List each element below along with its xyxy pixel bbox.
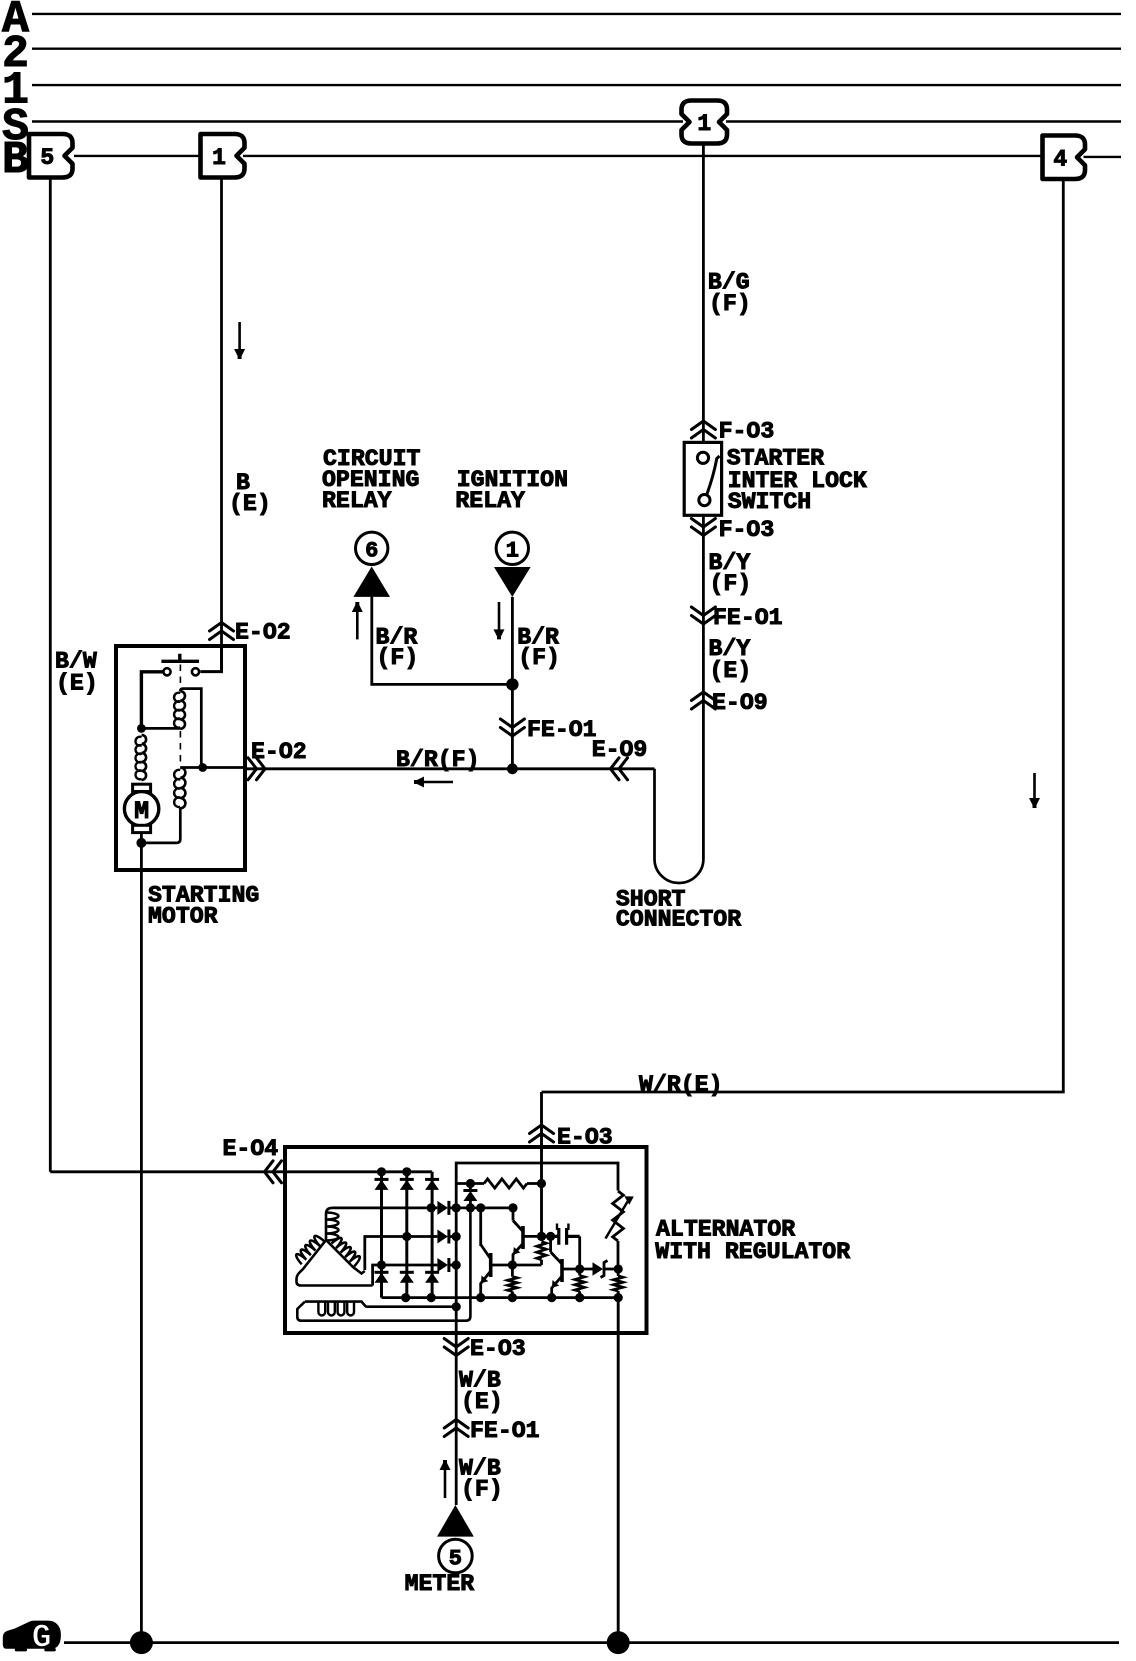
- svg-text:CONNECTOR: CONNECTOR: [616, 907, 741, 933]
- arrow flow left on B/R: [423, 781, 453, 784]
- connector symbol E-03 (chevron up): [530, 1125, 554, 1142]
- starting motor box: [116, 646, 245, 870]
- diode trio D3: [437, 1258, 448, 1272]
- hold-in winding loops (left bulge overlay): [174, 693, 180, 728]
- regulator inner box (top/left/right): [456, 1163, 618, 1323]
- svg-text:6: 6: [365, 539, 378, 564]
- connector symbol FE-01 (chevron down): [500, 719, 524, 736]
- alternator outer box: [285, 1147, 647, 1333]
- diode D6 bottom: [425, 1271, 439, 1274]
- junction trio rail P1: [452, 1203, 461, 1212]
- junction node A diode tap: [466, 1179, 475, 1188]
- connector symbol E-03 (chevron down): [444, 1339, 468, 1356]
- svg-text:B: B: [2, 135, 29, 186]
- wire trio D3 out: [450, 1264, 457, 1267]
- interlock switch contact (bottom): [699, 495, 710, 506]
- junction motor ground node: [136, 838, 146, 848]
- junction trio rail P3: [452, 1260, 461, 1269]
- wire connector1 to interlock switch (B/G): [702, 144, 705, 443]
- svg-text:E-O9: E-O9: [712, 690, 768, 716]
- svg-text:(F): (F): [377, 645, 419, 671]
- svg-text:M: M: [134, 797, 149, 826]
- wire bridge column 2: [405, 1172, 408, 1298]
- wire Q2 base riser: [512, 1208, 515, 1221]
- wire bridge column 1: [380, 1172, 383, 1298]
- junction R2 to rail: [508, 1293, 517, 1302]
- svg-text:B/R(F): B/R(F): [396, 747, 480, 773]
- wire motor ground run: [140, 833, 143, 1643]
- svg-text:FE-O1: FE-O1: [470, 1418, 540, 1444]
- interlock switch blade: [707, 456, 720, 495]
- arrow flow down on right wire: [1033, 773, 1036, 799]
- motor switch blade: [161, 654, 199, 662]
- connector box connector 5 (B bus): [29, 134, 73, 178]
- meter pin 5 circle: [439, 1539, 473, 1573]
- wire motor feed to switch contact: [201, 646, 222, 672]
- wire circuit opening relay branch: [372, 597, 513, 685]
- junction trio rail P2: [452, 1232, 461, 1241]
- VR1 adjustment arrow: [606, 1200, 629, 1239]
- wire hold-in top link: [180, 689, 201, 768]
- connector symbol F-03 (chevron down): [691, 519, 715, 536]
- wire interlock switch down (B/Y): [702, 515, 705, 859]
- arrow flow up to relay 6: [356, 611, 359, 639]
- stator winding (3-phase): [297, 1208, 373, 1286]
- wire R3 bottom lead: [540, 1260, 543, 1265]
- junction Q2 base tap: [508, 1203, 517, 1212]
- wire bus line B: [74, 156, 1121, 157]
- ignition relay pin 1 circle: [496, 532, 528, 564]
- svg-text:MOTOR: MOTOR: [148, 904, 218, 930]
- wire from connector 5 down (B/W): [49, 178, 52, 1172]
- wire alternator ground run: [617, 1298, 620, 1643]
- wire trio D2 out: [450, 1235, 457, 1238]
- wire Q1 collector riser: [479, 1208, 482, 1246]
- svg-text:METER: METER: [405, 1571, 475, 1597]
- short connector U-loop: [655, 769, 704, 883]
- wire field diode top lead: [469, 1184, 472, 1191]
- wire phase 1 line: [332, 1207, 437, 1210]
- transistor Q1: [489, 1253, 493, 1277]
- arrow flow down from relay 1: [498, 602, 501, 630]
- resistor R1: [484, 1179, 527, 1188]
- diode D5 bottom: [400, 1271, 414, 1274]
- wire W/B output run: [455, 1323, 458, 1506]
- junction Q1 emitter to rail: [476, 1293, 485, 1302]
- svg-text:(E): (E): [56, 671, 98, 697]
- junction B/R branch node: [506, 678, 518, 690]
- motor switch contact left: [163, 668, 170, 675]
- junction ground rail end: [614, 1293, 623, 1302]
- svg-text:E-O2: E-O2: [235, 620, 291, 646]
- transistor Q3: [560, 1259, 564, 1282]
- junction rail col3: [427, 1293, 436, 1302]
- connector symbol E-04 (left) (chevron left): [265, 1161, 282, 1183]
- wire P1 node line: [456, 1207, 513, 1210]
- svg-text:W/R(E): W/R(E): [639, 1072, 723, 1098]
- wire E-04 feed + diode bridge top rail: [50, 1170, 432, 1173]
- svg-text:E-O2: E-O2: [251, 739, 307, 765]
- motor armature M: [124, 792, 158, 826]
- diode D2 top: [400, 1178, 414, 1181]
- motor solenoid plunger dashed link: [179, 665, 181, 763]
- junction motor coil node: [137, 724, 146, 733]
- connector symbol E-02 (chevron up): [210, 623, 234, 640]
- junction zener to VR node: [614, 1264, 623, 1273]
- field winding loops (left bulge overlay): [135, 737, 141, 780]
- junction R4 to rail: [575, 1293, 584, 1302]
- wire bridge bottom / regulator ground rail: [382, 1296, 619, 1299]
- svg-text:5: 5: [449, 1547, 462, 1572]
- svg-text:(E): (E): [229, 491, 271, 517]
- svg-text:1: 1: [697, 111, 711, 137]
- svg-text:5: 5: [40, 145, 54, 171]
- stator phase-3 coil (right leg): [332, 1238, 360, 1266]
- svg-text:F-O3: F-O3: [719, 517, 775, 543]
- transistor Q2: [521, 1226, 525, 1249]
- wire R5 leads: [617, 1269, 620, 1298]
- resistor VR1 (adjustable): [613, 1191, 624, 1241]
- wire bus line 1: [32, 84, 1121, 86]
- svg-text:G: G: [32, 1620, 52, 1656]
- wire Q3 base line: [562, 1268, 593, 1271]
- junction Q2e/R2 node: [508, 1260, 517, 1269]
- svg-text:(F): (F): [709, 291, 751, 317]
- wire Q3 collector riser: [549, 1236, 552, 1252]
- diode D3 top: [425, 1178, 439, 1181]
- ignition relay terminal triangle (down): [494, 567, 531, 597]
- resistor R4: [575, 1276, 584, 1292]
- junction W/R node: [537, 1179, 546, 1188]
- svg-text:RELAY: RELAY: [455, 488, 525, 514]
- junction cap/Q3 node: [546, 1232, 555, 1241]
- wire R1 to W/R node: [527, 1182, 542, 1185]
- resistor R3: [537, 1242, 546, 1260]
- junction phase1-col3: [427, 1203, 436, 1212]
- wire node A lead: [456, 1182, 484, 1185]
- wire from connector 1 down (B): [220, 178, 223, 647]
- junction W/R to Q2 node: [537, 1232, 546, 1241]
- wire phase 2 line: [365, 1237, 438, 1271]
- wire trio D1 out: [450, 1207, 457, 1210]
- interlock switch contact (top): [697, 452, 708, 463]
- starter interlock switch box: [684, 442, 721, 515]
- junction phase2-col2: [402, 1232, 411, 1241]
- circuit opening relay pin 6 circle: [356, 532, 388, 564]
- arrow flow down on B wire: [238, 322, 241, 350]
- wire motor output to E-02: [203, 766, 244, 769]
- motor switch contact right: [192, 668, 199, 675]
- coil hold-in winding: [180, 691, 185, 729]
- wire main B/R(F) run: [244, 767, 655, 770]
- wire bus line 2: [32, 48, 1121, 50]
- junction Q2 collector node: [537, 1232, 546, 1241]
- svg-text:(F): (F): [461, 1477, 503, 1503]
- wire W/R into regulator: [540, 1092, 543, 1236]
- svg-text:(F): (F): [710, 571, 752, 597]
- wire R4 leads: [578, 1269, 581, 1298]
- svg-text:WITH REGULATOR: WITH REGULATOR: [655, 1239, 850, 1265]
- wire Q2 collector line: [523, 1235, 551, 1238]
- svg-text:F-O3: F-O3: [719, 418, 775, 444]
- motor armature terminal bottom: [133, 825, 151, 832]
- diode D1 top: [375, 1178, 389, 1181]
- wire phase 3 line: [373, 1265, 438, 1286]
- svg-text:(F): (F): [518, 645, 560, 671]
- wire ignition relay drop (B/R): [511, 597, 514, 769]
- wire bridge column 3: [431, 1172, 434, 1298]
- capacitor C1: [551, 1228, 580, 1245]
- wire R2 leads: [511, 1265, 514, 1298]
- wire pull-in top link: [180, 766, 202, 769]
- wire bus line A: [32, 13, 1121, 15]
- wire ground bus: [64, 1641, 1119, 1644]
- meter terminal triangle (up): [437, 1505, 474, 1537]
- svg-text:4: 4: [1053, 146, 1067, 172]
- coil field winding: [142, 735, 147, 780]
- resistor R2: [508, 1277, 517, 1292]
- junction ground node (alternator): [607, 1631, 630, 1654]
- wire VR to zener node: [617, 1241, 620, 1269]
- junction motor output node: [198, 763, 207, 772]
- connector box in-line connector 1 (S bus): [682, 101, 728, 144]
- svg-text:1: 1: [506, 539, 519, 564]
- junction Q3 emitter to rail: [547, 1293, 556, 1302]
- connector symbol FE-01 (chevron down): [691, 607, 715, 624]
- junction rail col2: [401, 1293, 410, 1302]
- connector symbol E-02 (right) (chevron right): [248, 758, 265, 780]
- resistor R5: [614, 1276, 623, 1291]
- junction zener node: [575, 1264, 584, 1273]
- junction Q1 collector tap: [476, 1203, 485, 1212]
- junction top rail col1: [377, 1167, 386, 1176]
- diode trio D1: [437, 1201, 448, 1215]
- diode trio D2: [437, 1230, 448, 1244]
- connector symbol F-03 (chevron up): [691, 421, 715, 438]
- wire connector 4 down and W/R(E) run: [542, 179, 1064, 1092]
- svg-text:E-O3: E-O3: [470, 1336, 526, 1362]
- connector box connector 1 (B bus): [201, 134, 245, 178]
- stator phase-2 coil (left leg): [296, 1236, 324, 1264]
- ground symbol (body ground G, car silhouette): [3, 1621, 61, 1649]
- junction top rail col2: [402, 1167, 411, 1176]
- junction field feed node: [466, 1203, 475, 1212]
- junction rotor to trio rail: [452, 1302, 461, 1311]
- pull-in winding loops (left bulge overlay): [174, 770, 180, 807]
- arrow flow up to meter: [444, 1469, 447, 1498]
- circuit opening relay terminal triangle (up): [353, 567, 390, 597]
- coil pull-in winding: [180, 768, 185, 809]
- connector symbol E-09 (left) (chevron left): [611, 758, 628, 780]
- svg-text:SWITCH: SWITCH: [728, 489, 812, 515]
- connector box connector 4 (B bus): [1043, 136, 1086, 180]
- svg-text:1: 1: [212, 145, 226, 171]
- wire Q1 base line: [491, 1264, 542, 1267]
- diode D4 bottom: [375, 1271, 389, 1274]
- svg-text:E-O4: E-O4: [223, 1136, 279, 1162]
- diode field feed diode: [463, 1189, 477, 1192]
- rotor field winding: [305, 1302, 456, 1307]
- motor armature terminal top: [133, 784, 151, 791]
- wire pull-in bottom link: [141, 808, 180, 843]
- wire hold-in bottom link: [141, 727, 180, 730]
- svg-text:RELAY: RELAY: [322, 488, 392, 514]
- stator phase-1 coil (stack): [326, 1213, 339, 1241]
- svg-text:(E): (E): [461, 1389, 503, 1415]
- junction phase3-col1: [377, 1260, 386, 1269]
- wire field diode bottom lead: [469, 1201, 472, 1208]
- junction ground node (starting motor): [130, 1631, 153, 1654]
- wire switch to coil junction: [141, 672, 163, 729]
- junction B/R main node: [507, 763, 518, 774]
- wire bus line S: [32, 120, 1121, 122]
- zener diode ZD1: [593, 1262, 604, 1276]
- svg-text:FE-O1: FE-O1: [527, 717, 597, 743]
- wire cap to zener node: [578, 1236, 581, 1269]
- connector symbol E-09 (chevron up): [691, 692, 715, 709]
- svg-text:FE-O1: FE-O1: [713, 605, 783, 631]
- svg-text:(E): (E): [710, 658, 752, 684]
- connector symbol FE-01 (chevron up): [444, 1420, 468, 1437]
